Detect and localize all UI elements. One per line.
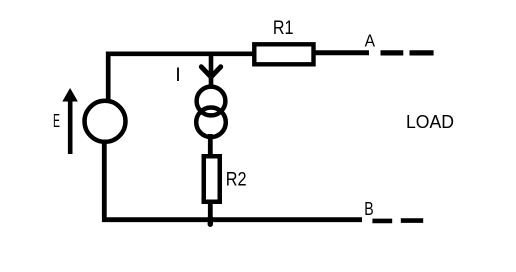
label R2 [226, 169, 247, 191]
label LOAD [406, 111, 454, 132]
svg-text:I: I [175, 64, 181, 86]
svg-text:R1: R1 [273, 17, 294, 39]
junction dot R2 / bottom rail [208, 218, 213, 224]
svg-text:R2: R2 [226, 169, 247, 191]
svg-text:A: A [365, 31, 376, 51]
wire current source to R2 [208, 134, 213, 157]
svg-text:E: E [53, 111, 60, 131]
label I [175, 64, 181, 86]
node A label [365, 31, 376, 51]
resistor R2 [204, 156, 220, 202]
dashed wire from node B to load [372, 218, 423, 223]
arrow I direction (downward chevron) [201, 67, 220, 77]
svg-text:B: B [364, 198, 373, 219]
dashed wire from node A to load [381, 50, 434, 55]
svg-text:LOAD: LOAD [406, 111, 454, 132]
wire R2 to bottom rail [208, 202, 213, 218]
current source I (two overlapping circles) [196, 87, 226, 138]
label R1 [273, 17, 294, 39]
voltage source E [85, 101, 126, 142]
node B label [364, 198, 373, 219]
wire left vertical and bottom rail to node B [104, 142, 362, 220]
resistor R1 [254, 44, 313, 64]
arrow E polarity (upward) [62, 88, 78, 154]
wire top rail from left corner to R1 [108, 54, 253, 100]
wire R1 to node A [315, 50, 369, 55]
label E [53, 111, 60, 131]
wire current source branch from top rail [209, 56, 214, 88]
